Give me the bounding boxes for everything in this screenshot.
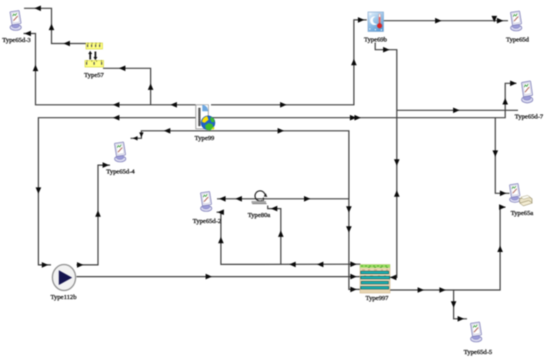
svg-text:Type65d: Type65d — [506, 37, 530, 44]
sky temperature Type69b — [364, 12, 388, 44]
wire: branch down to Type65a — [493, 118, 510, 196]
svg-text:Type65d-2: Type65d-2 — [193, 218, 221, 225]
wire: y264 line Type997 to Type65d-2 — [217, 209, 361, 267]
pump Type112b — [50, 265, 77, 302]
wire: Type69b to Type65d — [383, 16, 508, 24]
pipe Type80a — [248, 191, 271, 219]
svg-text:Type69b: Type69b — [364, 37, 388, 44]
svg-text:Type65d-5: Type65d-5 — [464, 349, 493, 356]
svg-text:Type65d-7: Type65d-7 — [515, 114, 544, 121]
wire: pump long output to Type997 — [77, 274, 361, 280]
wire: branch down to Type65d-5 — [451, 290, 467, 322]
wire: Type99 to Type65d-3 — [24, 31, 196, 108]
svg-text:Type112b: Type112b — [50, 294, 77, 301]
wire: y130 line Type99 to Type65d-4 and down to Type997 — [131, 128, 361, 292]
plotter Type65d-2 — [193, 191, 221, 225]
svg-text:Type65a: Type65a — [511, 210, 534, 217]
svg-text:Type997: Type997 — [366, 295, 390, 302]
weather data Type99 — [195, 105, 215, 142]
ground heat exchanger Type997 — [360, 265, 390, 303]
unit converter Type57 — [84, 43, 104, 79]
svg-text:Type57: Type57 — [84, 72, 104, 79]
wire: Type69b down to Type997 right side — [375, 43, 399, 281]
wire: Type57 to Type65d-3 — [24, 6, 86, 47]
wire: pump to Type65d-4 — [77, 162, 111, 267]
plotter Type65d — [506, 11, 530, 44]
svg-text:Type80a: Type80a — [248, 212, 271, 219]
plotter Type65d-5 — [464, 322, 493, 356]
wire: junction riser to Type57 — [103, 66, 153, 105]
wire: return up into Type80u — [268, 206, 284, 265]
svg-text:Type65d-3: Type65d-3 — [2, 37, 31, 44]
plotter Type65d-4 — [106, 142, 135, 176]
wire: branch to Type65d-7 bottom — [397, 108, 518, 114]
printer plotter Type65a — [509, 183, 533, 217]
svg-text:Type99: Type99 — [195, 135, 215, 142]
wire: long line y117 from Type65d-7 to pump — [36, 81, 517, 268]
svg-text:Type65d-4: Type65d-4 — [106, 169, 135, 176]
plotter Type65d-7 — [515, 81, 544, 121]
wire: Type80u line to Type65d-2 and to riser — [217, 196, 349, 202]
wire: Type99 to Type69b — [211, 17, 367, 108]
plotter Type65d-3 — [2, 10, 31, 44]
wire: Type997 output right to Type65a — [389, 204, 505, 293]
